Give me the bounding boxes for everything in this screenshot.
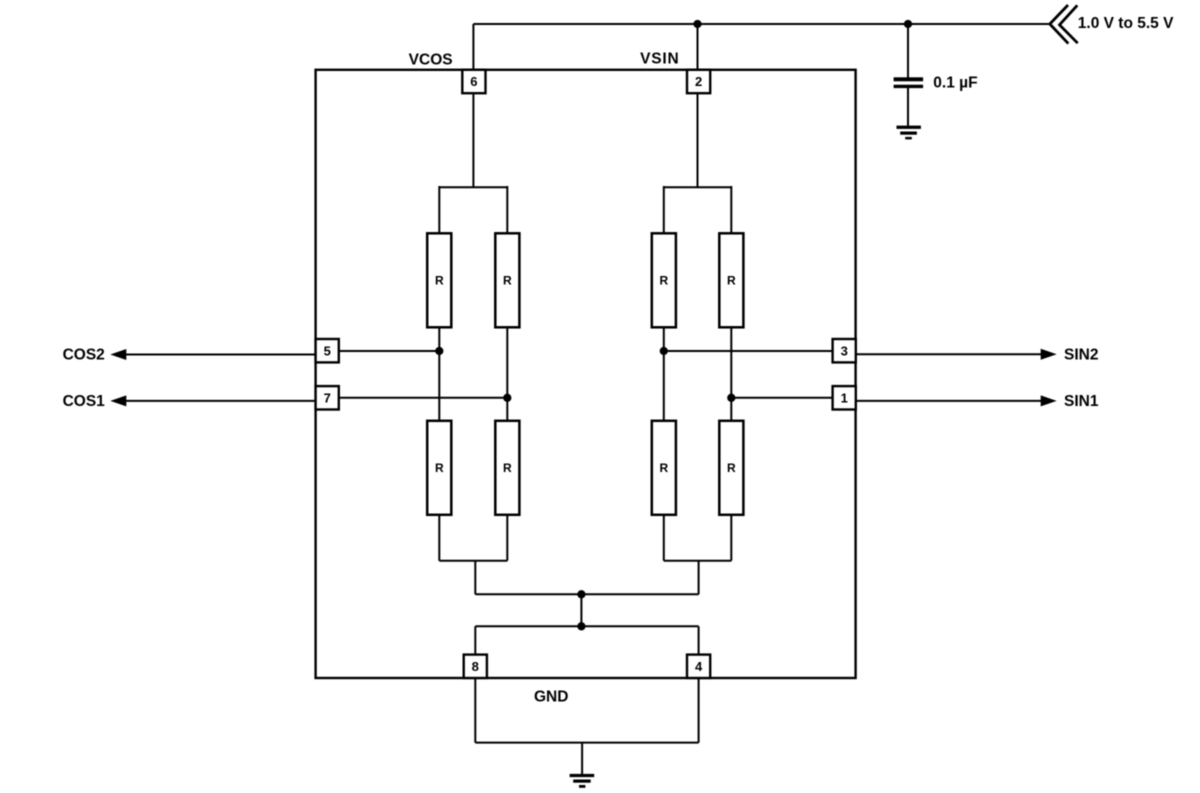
capacitor C plates — [894, 77, 924, 88]
wire COS1 external — [124, 400, 316, 402]
svg-text:3: 3 — [841, 343, 848, 358]
svg-text:R: R — [659, 274, 668, 288]
svg-text:VSIN: VSIN — [640, 50, 679, 67]
svg-text:R: R — [435, 274, 444, 288]
wire right bridge top bar — [664, 186, 732, 188]
wire pin2 riser — [697, 24, 699, 187]
wire right bridge bottom bar — [664, 560, 732, 562]
svg-text:R: R — [503, 461, 512, 475]
wire left bridge top bar — [439, 186, 507, 188]
node SIN2 tap — [660, 347, 668, 355]
svg-text:4: 4 — [695, 659, 703, 674]
arrow SIN1 — [1041, 395, 1057, 406]
svg-text:0.1 µF: 0.1 µF — [933, 75, 977, 92]
svg-text:6: 6 — [470, 74, 477, 89]
node COS2 tap — [435, 347, 443, 355]
svg-text:1: 1 — [841, 391, 848, 406]
node supply-capacitor junction — [904, 20, 912, 28]
wire COS1 internal — [339, 397, 508, 399]
resistor R (left bridge lower-left) — [427, 421, 451, 515]
resistor R (right bridge upper-right) — [719, 233, 743, 327]
pin 2 — [687, 70, 710, 93]
svg-text:R: R — [727, 461, 736, 475]
resistor R (left bridge lower-right) — [495, 421, 519, 515]
svg-text:5: 5 — [324, 343, 331, 358]
svg-text:R: R — [503, 274, 512, 288]
wire common mid vertical — [580, 594, 582, 626]
node COS1 tap — [503, 394, 511, 402]
pin 3 — [833, 339, 856, 362]
wire SIN1 external — [856, 400, 1044, 402]
wire left bridge bottom bar — [439, 560, 507, 562]
arrow SIN2 — [1041, 349, 1057, 360]
svg-text:VCOS: VCOS — [409, 52, 453, 69]
wire left bridge left branch — [438, 186, 440, 561]
resistor R (right bridge upper-left) — [652, 233, 676, 327]
pin 1 — [833, 386, 856, 409]
pin 6 — [462, 70, 485, 93]
wire pin8 to ground bar — [474, 678, 476, 743]
node supply-VSIN junction — [693, 20, 701, 28]
svg-text:1.0 V to 5.5 V: 1.0 V to 5.5 V — [1078, 15, 1174, 32]
wire ground stub — [581, 743, 583, 774]
wire common node lower — [475, 625, 698, 627]
wire capacitor to ground — [907, 88, 909, 126]
ground (main) — [570, 774, 595, 788]
node SIN1 tap — [727, 394, 735, 402]
node common upper — [577, 590, 585, 598]
wire SIN1 internal — [731, 397, 832, 399]
svg-text:COS1: COS1 — [63, 393, 106, 410]
svg-text:COS2: COS2 — [63, 346, 105, 363]
svg-text:R: R — [727, 274, 736, 288]
wire pin4 to ground bar — [698, 678, 700, 743]
pin 5 — [316, 339, 339, 362]
ground (capacitor) — [897, 126, 921, 140]
resistor R (left bridge upper-right) — [495, 233, 519, 327]
wire right bridge center drop — [698, 561, 700, 595]
wire ground bottom bar — [475, 742, 698, 744]
wire SIN2 external — [856, 353, 1044, 355]
wire common node upper — [475, 593, 698, 595]
resistor R (right bridge lower-left) — [652, 421, 676, 515]
svg-text:2: 2 — [695, 74, 702, 89]
wire to pin4 top — [698, 626, 700, 655]
arrow COS2 — [110, 349, 126, 360]
wire right bridge right branch — [730, 186, 732, 561]
wire top supply rail — [473, 23, 1049, 25]
power supply chevron — [1050, 5, 1078, 44]
pin 8 — [464, 655, 487, 678]
svg-text:SIN1: SIN1 — [1064, 393, 1099, 410]
wire SIN2 internal — [664, 350, 833, 352]
resistor R (left bridge upper-left) — [427, 233, 451, 327]
wire to pin8 top — [474, 626, 476, 655]
pin 7 — [316, 386, 339, 409]
wire left bridge center drop — [474, 561, 476, 595]
svg-text:R: R — [435, 461, 444, 475]
wire COS2 external — [124, 354, 316, 356]
pin 4 — [687, 655, 710, 678]
svg-text:R: R — [659, 461, 668, 475]
svg-text:8: 8 — [472, 659, 479, 674]
wire capacitor feed — [907, 24, 909, 78]
wire right bridge left branch — [663, 186, 665, 561]
arrow COS1 — [110, 395, 126, 406]
svg-text:7: 7 — [324, 391, 331, 406]
svg-text:GND: GND — [534, 688, 568, 705]
svg-text:SIN2: SIN2 — [1064, 346, 1098, 363]
wire pin6 riser — [472, 24, 474, 187]
resistor R (right bridge lower-right) — [719, 421, 743, 515]
IC boundary — [316, 70, 856, 678]
wire left bridge right branch — [506, 186, 508, 561]
wire COS2 internal — [339, 350, 440, 352]
node common lower — [577, 622, 585, 630]
